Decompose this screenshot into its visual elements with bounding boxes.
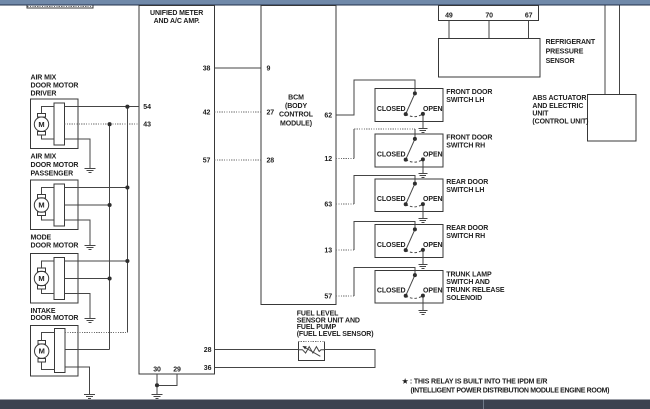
wire abs left (604, 6, 606, 95)
junction bus B / M3 (108, 276, 112, 280)
svg-text:DOOR MOTOR: DOOR MOTOR (31, 162, 79, 169)
svg-text:28: 28 (204, 347, 212, 354)
svg-text:AIR MIX: AIR MIX (31, 154, 57, 161)
svg-text:UNIT: UNIT (532, 111, 549, 118)
svg-text:AIR MIX: AIR MIX (31, 75, 57, 82)
svg-text:9: 9 (267, 66, 271, 73)
svg-text:SENSOR: SENSOR (546, 58, 575, 65)
svg-text:ABS ACTUATOR: ABS ACTUATOR (532, 95, 586, 102)
svg-text:DOOR MOTOR: DOOR MOTOR (31, 243, 79, 250)
refrigerant pressure sensor box (438, 39, 540, 78)
svg-text:M: M (39, 347, 45, 356)
bus B vertical (109, 124, 111, 349)
svg-text:(CONTROL UNIT): (CONTROL UNIT) (532, 118, 588, 125)
rear door switch RH (375, 225, 443, 265)
abs actuator and electric unit box (588, 95, 636, 141)
svg-text:MODULE): MODULE) (280, 120, 312, 127)
rear door switch LH (375, 179, 443, 219)
ground front door switch LH (418, 129, 427, 133)
ground meter bottom (152, 395, 163, 399)
refrigerant pressure sensor connector box (438, 6, 538, 21)
wire M4 wiper to bus B (65, 349, 110, 351)
bus A vertical (126, 107, 128, 333)
svg-text:★ : THIS RELAY IS BUILT INTO T: ★ : THIS RELAY IS BUILT INTO THE IPDM E/… (402, 377, 547, 385)
wire meter38 to bcm9 (214, 67, 261, 69)
svg-text:49: 49 (445, 13, 453, 20)
svg-text:13: 13 (324, 248, 332, 255)
ground M3 (85, 319, 96, 323)
svg-text:70: 70 (485, 13, 493, 20)
wire meter57 to bcm28 dotted (214, 159, 261, 161)
front door switch LH (375, 89, 443, 129)
svg-text:DOOR MOTOR: DOOR MOTOR (31, 315, 79, 322)
top header bar (0, 0, 650, 4)
svg-text:SWITCH AND: SWITCH AND (446, 279, 490, 286)
top-left cut-off connector box (27, 6, 93, 9)
trunk lamp switch and trunk release solenoid (375, 270, 443, 310)
bcm box (261, 6, 336, 305)
svg-text:TRUNK LAMP: TRUNK LAMP (446, 271, 492, 278)
svg-text:(INTELLIGENT POWER DISTRIBUTIO: (INTELLIGENT POWER DISTRIBUTION MODULE E… (411, 387, 610, 394)
ground M4 (84, 395, 95, 399)
ground rear door switch RH (418, 265, 427, 269)
svg-text:(FUEL LEVEL SENSOR): (FUEL LEVEL SENSOR) (297, 331, 374, 338)
wire M2 wiper (64, 204, 109, 206)
fuel sensor arrow (305, 348, 320, 357)
svg-text:57: 57 (203, 158, 211, 165)
svg-text:DOOR MOTOR: DOOR MOTOR (31, 83, 79, 90)
wire abs right (619, 6, 621, 95)
wire M3 wiper (64, 278, 109, 280)
wire bcm63 to rear door switch lh (354, 176, 415, 204)
svg-text:FRONT DOOR: FRONT DOOR (446, 134, 492, 141)
wire M3 ground (64, 294, 90, 319)
svg-text:30: 30 (153, 366, 161, 373)
svg-text:29: 29 (173, 366, 181, 373)
fuel level sensor box (298, 341, 324, 360)
wire pin28 to fuel sensor (214, 349, 298, 351)
svg-text:SWITCH RH: SWITCH RH (446, 143, 485, 150)
wire M4 top dotted to bus A (65, 332, 127, 334)
wire M1 top to pin 54 (64, 106, 138, 108)
wire fuel sensor loop to pin36 (214, 350, 375, 368)
wire bcm63 dotted segment (336, 203, 354, 205)
svg-text:27: 27 (267, 110, 275, 117)
wire bcm12 dotted segment (336, 158, 354, 160)
wire pin30 to ground (156, 374, 158, 395)
junction bus A / M1 (125, 105, 129, 109)
junction bus B / M2 (108, 203, 112, 207)
svg-text:SWITCH LH: SWITCH LH (446, 187, 484, 194)
svg-text:62: 62 (324, 112, 332, 119)
svg-text:(BODY: (BODY (285, 103, 307, 110)
footer divider (483, 399, 484, 409)
unified meter and a/c amp box (139, 6, 215, 374)
junction bus A / M3 (125, 259, 129, 263)
svg-text:REAR DOOR: REAR DOOR (446, 225, 488, 232)
svg-text:BCM: BCM (288, 94, 304, 101)
svg-text:54: 54 (143, 104, 151, 111)
svg-text:43: 43 (143, 122, 151, 129)
ground trunk lamp switch (418, 311, 427, 315)
svg-text:DRIVER: DRIVER (31, 90, 57, 97)
svg-text:FRONT DOOR: FRONT DOOR (446, 89, 492, 96)
wire bcm57 dotted segment (336, 295, 354, 297)
fuel sensor resistor (298, 347, 324, 353)
ground M2 (85, 246, 96, 250)
svg-text:63: 63 (324, 202, 332, 209)
svg-text:28: 28 (267, 158, 275, 165)
svg-text:57: 57 (324, 293, 332, 300)
wire pin70 down (488, 20, 490, 38)
wire bcm12 drop (414, 129, 416, 138)
svg-text:AND ELECTRIC: AND ELECTRIC (532, 103, 583, 110)
svg-text:INTAKE: INTAKE (31, 308, 56, 315)
svg-text:REAR DOOR: REAR DOOR (446, 179, 488, 186)
wire M2 top (64, 187, 127, 189)
ground M1 (85, 169, 96, 173)
junction bus A / M2 (125, 185, 129, 189)
wire pin29 elbow (157, 374, 177, 385)
wire bcm12 elbow dotted (354, 128, 415, 130)
wire bcm12 riser (353, 129, 355, 159)
svg-text:SWITCH RH: SWITCH RH (446, 233, 485, 240)
svg-text:42: 42 (203, 110, 211, 117)
svg-text:SOLENOID: SOLENOID (446, 295, 482, 302)
svg-text:REFRIGERANT: REFRIGERANT (546, 39, 596, 46)
wire bcm13 dotted segment (336, 249, 354, 251)
wire pin49 down (448, 20, 450, 38)
wire pin67 down (528, 20, 530, 38)
wire bcm13 to rear door switch rh (354, 221, 415, 250)
svg-text:AND A/C AMP.: AND A/C AMP. (154, 18, 200, 25)
svg-text:PASSENGER: PASSENGER (31, 171, 74, 178)
footer bar (0, 399, 650, 409)
svg-text:CONTROL: CONTROL (279, 112, 314, 119)
wire bcm57 to trunk lamp switch (354, 268, 415, 296)
junction bus B / M1 (108, 122, 112, 126)
wire M3 top (64, 260, 127, 262)
svg-text:TRUNK RELEASE: TRUNK RELEASE (446, 287, 505, 294)
wire M4 ground (65, 367, 90, 395)
svg-text:UNIFIED METER: UNIFIED METER (150, 10, 203, 17)
svg-text:MODE: MODE (31, 234, 52, 241)
junction 29/30 (155, 383, 159, 387)
svg-text:SWITCH LH: SWITCH LH (446, 97, 484, 104)
wire M1 ground (64, 139, 90, 168)
svg-text:38: 38 (203, 66, 211, 73)
wire meter42 to bcm27 dotted (214, 111, 261, 113)
svg-text:36: 36 (204, 365, 212, 372)
front door switch RH (375, 134, 443, 174)
wire bcm62 to front door switch lh (336, 80, 415, 115)
svg-text:67: 67 (525, 13, 533, 20)
wire M1 wiper to pin 43 dotted (64, 123, 138, 125)
ground front door switch RH (418, 174, 427, 178)
ground rear door switch LH (418, 219, 427, 223)
svg-text:12: 12 (324, 156, 332, 163)
wire M2 ground (64, 220, 90, 246)
svg-text:PRESSURE: PRESSURE (546, 48, 584, 55)
